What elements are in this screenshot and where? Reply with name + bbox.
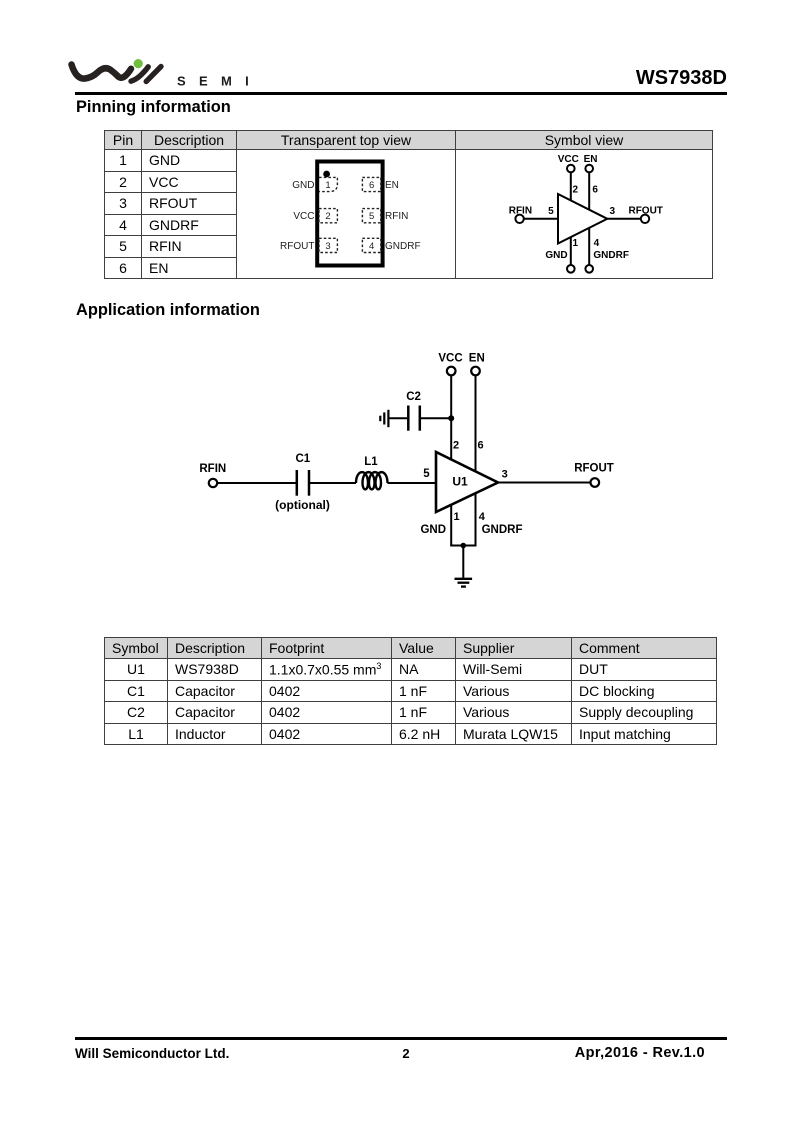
pin 1 marker dot: [323, 171, 330, 178]
terminal GNDRF: [585, 265, 593, 273]
svg-text:VCC: VCC: [438, 352, 462, 364]
svg-text:L1: L1: [364, 456, 378, 468]
logo slash i: [131, 67, 148, 81]
wire pin1: [570, 237, 572, 265]
svg-text:GND: GND: [420, 524, 446, 536]
wire pin4 down: [475, 494, 477, 546]
pinning table: [104, 130, 713, 279]
svg-text:6: 6: [369, 180, 374, 191]
symbol view drawing: [455, 149, 712, 279]
logo wave w: [72, 65, 132, 79]
svg-text:3: 3: [325, 241, 330, 252]
wire to ground: [462, 546, 464, 579]
terminal RFIN: [515, 215, 523, 223]
svg-text:4: 4: [479, 511, 486, 523]
svg-text:5: 5: [548, 206, 554, 217]
svg-text:SEMI: SEMI: [177, 74, 260, 89]
part number WS7938D: [500, 67, 727, 90]
wire pin1 down: [450, 505, 452, 546]
svg-text:EN: EN: [469, 352, 485, 364]
junction node gnd: [461, 543, 467, 549]
svg-text:5: 5: [369, 211, 374, 222]
svg-text:U1: U1: [452, 475, 468, 489]
wire pin3: [607, 218, 640, 220]
pad pin 6: [362, 177, 380, 191]
wire pin4: [588, 228, 590, 265]
wire EN to pin6: [475, 376, 477, 472]
svg-text:6: 6: [592, 184, 598, 195]
footer page number: [306, 1046, 506, 1061]
footer revision: [475, 1045, 705, 1061]
terminal GND: [567, 265, 575, 273]
footer company: [75, 1046, 229, 1061]
pad pin 2: [319, 209, 337, 223]
svg-text:GNDRF: GNDRF: [482, 524, 523, 536]
capacitor C2: [408, 406, 420, 431]
inductor L1: [356, 472, 388, 489]
footer rule: [75, 1037, 727, 1040]
svg-text:C1: C1: [295, 453, 310, 465]
svg-text:3: 3: [610, 206, 616, 217]
wire L1 to pin5: [388, 482, 436, 484]
wire VCC to pin2: [450, 376, 452, 460]
ground symbol: [455, 579, 473, 587]
svg-text:GNDRF: GNDRF: [385, 241, 421, 252]
op-amp U1 triangle: [436, 452, 498, 512]
wire pin2: [570, 173, 572, 201]
wire pin6: [588, 173, 590, 211]
terminal RFIN: [209, 479, 217, 487]
svg-text:EN: EN: [385, 180, 399, 191]
terminal RFOUT: [641, 215, 649, 223]
application schematic: [170, 340, 640, 600]
svg-text:(optional): (optional): [275, 498, 330, 512]
terminal EN: [471, 367, 480, 376]
BOM table: [104, 637, 717, 745]
svg-text:VCC: VCC: [293, 211, 314, 222]
pad pin 5: [362, 209, 380, 223]
svg-text:RFOUT: RFOUT: [628, 206, 662, 217]
wire gnd to C2: [390, 417, 408, 419]
logo green dot: [134, 59, 143, 68]
heading Pinning information: [76, 98, 231, 117]
svg-text:VCC: VCC: [558, 154, 579, 165]
package transparent top view drawing: [237, 150, 455, 278]
amplifier triangle: [558, 194, 607, 244]
svg-text:3: 3: [502, 468, 508, 480]
junction node C2/VCC: [448, 415, 454, 421]
terminal VCC: [447, 367, 456, 376]
svg-text:RFIN: RFIN: [199, 463, 226, 475]
pad pin 3: [319, 238, 337, 252]
ground symbol at C2: [380, 410, 388, 427]
svg-text:6: 6: [478, 440, 484, 452]
capacitor C1: [297, 470, 309, 496]
svg-text:1: 1: [325, 180, 330, 191]
pad pin 4: [362, 238, 380, 252]
svg-text:GNDRF: GNDRF: [593, 250, 629, 261]
svg-text:RFIN: RFIN: [509, 206, 532, 217]
terminal EN: [585, 165, 593, 173]
svg-text:C2: C2: [406, 391, 421, 403]
svg-text:GND: GND: [292, 180, 314, 191]
svg-text:4: 4: [369, 241, 374, 252]
pad pin 1: [319, 177, 337, 191]
svg-text:RFOUT: RFOUT: [574, 462, 614, 474]
wire C1 to L1: [310, 482, 356, 484]
svg-text:1: 1: [573, 238, 579, 249]
package outline U1: [317, 162, 382, 266]
wire pin5: [524, 218, 558, 220]
svg-text:RFOUT: RFOUT: [280, 241, 314, 252]
svg-text:1: 1: [454, 511, 460, 523]
svg-text:4: 4: [594, 238, 600, 249]
wire pin3 to RFOUT: [498, 482, 590, 484]
svg-text:2: 2: [573, 184, 579, 195]
header rule: [75, 92, 727, 95]
terminal RFOUT: [591, 478, 600, 487]
logo slash l: [146, 67, 161, 82]
wire RFIN to C1: [218, 482, 297, 484]
svg-text:2: 2: [453, 440, 459, 452]
svg-text:GND: GND: [545, 250, 567, 261]
heading Application information: [76, 301, 260, 320]
wire C2 to VCC net: [421, 417, 452, 419]
svg-text:EN: EN: [584, 154, 598, 165]
svg-text:RFIN: RFIN: [385, 211, 408, 222]
svg-text:2: 2: [325, 211, 330, 222]
wire gnd bus: [450, 545, 476, 547]
svg-text:5: 5: [423, 468, 430, 480]
logo Will Semi: [60, 45, 260, 95]
terminal VCC: [567, 165, 575, 173]
